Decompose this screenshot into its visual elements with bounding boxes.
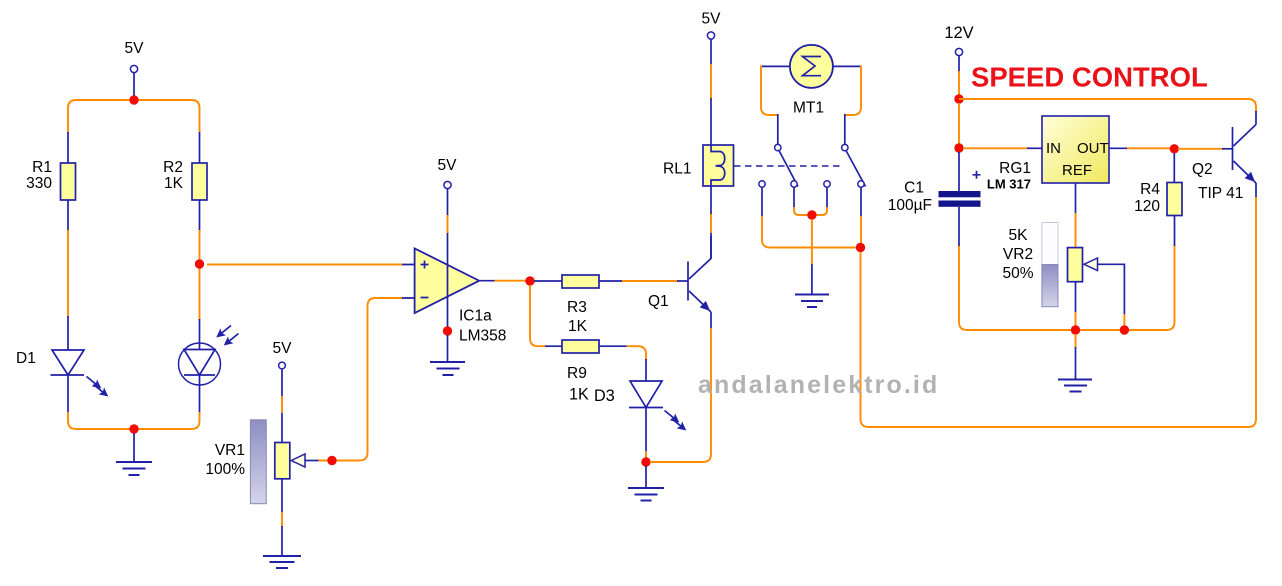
svg-text:LM 317: LM 317 xyxy=(987,177,1031,192)
svg-text:VR2: VR2 xyxy=(1003,246,1033,263)
svg-text:OUT: OUT xyxy=(1077,140,1109,157)
svg-text:5V: 5V xyxy=(125,40,145,57)
svg-text:5V: 5V xyxy=(702,11,722,28)
svg-text:SPEED CONTROL: SPEED CONTROL xyxy=(971,62,1208,93)
svg-text:330: 330 xyxy=(26,175,52,192)
svg-text:D3: D3 xyxy=(594,387,615,405)
svg-text:50%: 50% xyxy=(1002,265,1033,282)
svg-text:R3: R3 xyxy=(567,299,587,316)
svg-text:5K: 5K xyxy=(1009,227,1029,244)
svg-text:Q1: Q1 xyxy=(648,293,669,310)
svg-text:5V: 5V xyxy=(438,157,458,174)
svg-text:IN: IN xyxy=(1046,140,1061,157)
svg-text:MT1: MT1 xyxy=(793,100,824,117)
svg-text:100%: 100% xyxy=(205,461,245,478)
svg-text:R1: R1 xyxy=(32,159,52,176)
svg-text:RG1: RG1 xyxy=(999,160,1031,177)
svg-text:TIP 41: TIP 41 xyxy=(1198,185,1243,202)
svg-text:Q2: Q2 xyxy=(1192,161,1213,178)
svg-text:andalanelektro.id: andalanelektro.id xyxy=(698,371,939,399)
svg-text:IC1a: IC1a xyxy=(459,308,492,325)
svg-text:1K: 1K xyxy=(569,386,589,404)
svg-text:R4: R4 xyxy=(1140,181,1160,198)
svg-text:1K: 1K xyxy=(568,318,588,335)
svg-text:R2: R2 xyxy=(163,159,183,176)
svg-text:12V: 12V xyxy=(944,24,973,42)
svg-text:120: 120 xyxy=(1134,198,1160,215)
svg-text:D1: D1 xyxy=(16,350,36,367)
svg-text:REF: REF xyxy=(1062,162,1092,179)
svg-text:C1: C1 xyxy=(904,180,924,197)
svg-text:1K: 1K xyxy=(164,175,184,192)
svg-text:RL1: RL1 xyxy=(663,161,691,178)
svg-text:R9: R9 xyxy=(567,365,587,382)
svg-text:LM358: LM358 xyxy=(459,328,506,345)
svg-text:VR1: VR1 xyxy=(215,442,245,459)
svg-text:100µF: 100µF xyxy=(888,197,932,214)
svg-text:5V: 5V xyxy=(273,340,293,357)
